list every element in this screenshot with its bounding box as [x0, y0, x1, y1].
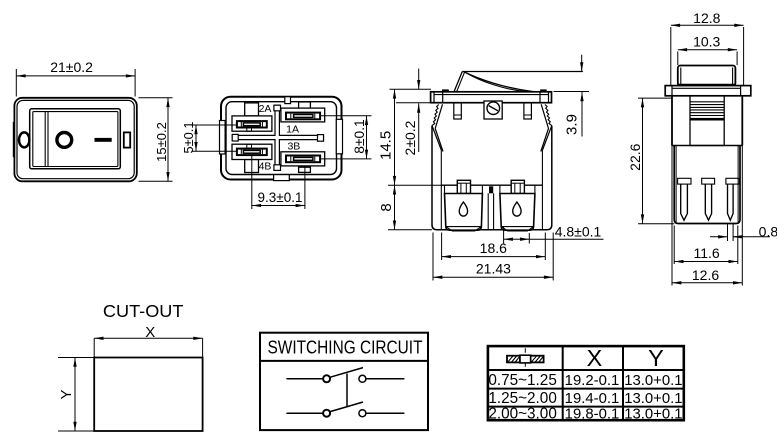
- svg-text:4.8±0.1: 4.8±0.1: [555, 223, 602, 239]
- svg-text:8±0.1: 8±0.1: [352, 119, 367, 153]
- svg-text:13.0+0.1: 13.0+0.1: [624, 373, 682, 389]
- svg-text:21±0.2: 21±0.2: [50, 59, 93, 75]
- svg-text:2A: 2A: [259, 103, 272, 115]
- svg-text:Y: Y: [58, 389, 75, 399]
- svg-text:19.4-0.1: 19.4-0.1: [565, 391, 620, 407]
- svg-text:15±0.2: 15±0.2: [154, 122, 169, 162]
- svg-text:Y: Y: [648, 345, 664, 371]
- svg-text:2.00~3.00: 2.00~3.00: [488, 405, 556, 422]
- svg-text:13.0+0.1: 13.0+0.1: [624, 406, 682, 422]
- svg-text:14.5: 14.5: [378, 131, 395, 160]
- svg-text:SWITCHING CIRCUIT: SWITCHING CIRCUIT: [268, 338, 423, 358]
- svg-text:9.3±0.1: 9.3±0.1: [258, 190, 303, 205]
- svg-text:4B: 4B: [259, 160, 272, 172]
- svg-text:10.3: 10.3: [693, 34, 720, 50]
- svg-text:18.6: 18.6: [480, 240, 507, 256]
- svg-text:3.9: 3.9: [564, 114, 581, 135]
- svg-text:19.8-0.1: 19.8-0.1: [565, 406, 620, 422]
- svg-text:2±0.2: 2±0.2: [402, 120, 418, 155]
- svg-text:19.2-0.1: 19.2-0.1: [565, 373, 620, 389]
- svg-text:11.6: 11.6: [693, 245, 719, 261]
- svg-text:X: X: [587, 345, 603, 371]
- svg-text:12.8: 12.8: [693, 10, 720, 26]
- svg-text:1A: 1A: [286, 124, 299, 136]
- svg-text:0.8: 0.8: [759, 223, 777, 239]
- svg-text:13.0+0.1: 13.0+0.1: [624, 391, 682, 407]
- svg-text:CUT-OUT: CUT-OUT: [103, 301, 184, 321]
- svg-text:8: 8: [378, 203, 395, 211]
- svg-text:5±0.1: 5±0.1: [181, 122, 196, 154]
- svg-text:22.6: 22.6: [627, 143, 643, 170]
- svg-text:12.6: 12.6: [692, 267, 719, 283]
- svg-text:3B: 3B: [287, 141, 300, 153]
- svg-text:0.75~1.25: 0.75~1.25: [488, 372, 556, 389]
- svg-text:21.43: 21.43: [476, 261, 511, 277]
